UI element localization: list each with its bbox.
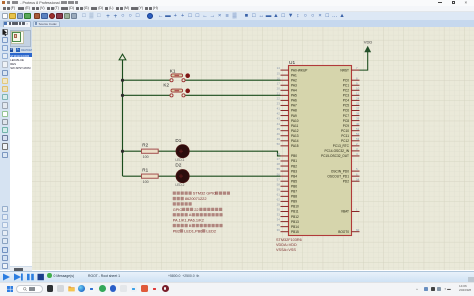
svg-text:36: 36 — [277, 228, 281, 232]
device list — [10, 53, 33, 266]
svg-text:21: 21 — [277, 91, 281, 95]
system tray — [416, 287, 418, 292]
power terminal (left rail, arrow up) — [119, 54, 126, 60]
svg-text:PA11: PA11 — [291, 124, 299, 128]
svg-text:PB3: PB3 — [291, 169, 297, 173]
svg-text:PB13: PB13 — [291, 220, 299, 224]
toolbar — [0, 12, 474, 20]
resistor R2 — [142, 143, 159, 159]
svg-text:D2: D2 — [175, 163, 181, 168]
svg-text:K2: K2 — [163, 82, 169, 87]
svg-text:44: 44 — [277, 122, 281, 126]
svg-text:VDD: VDD — [364, 39, 373, 44]
LED D2 — [175, 163, 189, 187]
svg-text:VDDA=VDD: VDDA=VDD — [276, 243, 297, 247]
svg-text:PA13: PA13 — [291, 134, 299, 138]
svg-text:PB8: PB8 — [291, 195, 297, 199]
wire: K2 to PA5 — [185, 94, 280, 96]
svg-text:PA8: PA8 — [291, 109, 297, 113]
svg-text:40: 40 — [356, 122, 360, 126]
svg-text:OSCOUT_PD1: OSCOUT_PD1 — [327, 174, 349, 178]
svg-text:LED-1: LED-1 — [175, 158, 184, 162]
svg-text:A: A — [189, 212, 192, 217]
svg-text:PC3: PC3 — [343, 94, 349, 98]
svg-text:15: 15 — [277, 71, 281, 75]
svg-text:PA4: PA4 — [291, 89, 297, 93]
overview panel — [10, 30, 31, 48]
svg-text:PC13_RTC: PC13_RTC — [333, 144, 350, 148]
svg-text:PC0: PC0 — [343, 78, 349, 82]
LED D1 — [175, 138, 189, 162]
object selector column — [10, 27, 33, 270]
wire: rail corner to R1 — [123, 175, 142, 177]
switch K2 — [163, 82, 190, 96]
svg-text:PA1: PA1 — [291, 73, 297, 77]
svg-text:28: 28 — [277, 162, 281, 166]
svg-text:27: 27 — [277, 157, 281, 161]
svg-text:24: 24 — [356, 97, 360, 101]
svg-text:29: 29 — [277, 203, 281, 207]
svg-text:PA.1/K1,PA6.1/K2: PA.1/K1,PA6.1/K2 — [173, 218, 204, 223]
VDD power terminal — [364, 39, 373, 51]
svg-text:PC4: PC4 — [343, 99, 349, 103]
svg-text:STM32 GPIO: STM32 GPIO — [193, 191, 216, 196]
svg-text:8620071222: 8620071222 — [185, 196, 207, 201]
wire: VDD to NRST — [360, 52, 368, 70]
svg-text:PB0: PB0 — [291, 154, 297, 158]
svg-text:54: 54 — [356, 177, 360, 181]
svg-text:PA3: PA3 — [291, 83, 297, 87]
svg-text:22: 22 — [277, 97, 281, 101]
wire: left vertical rail — [122, 60, 124, 176]
svg-text:100: 100 — [143, 155, 149, 159]
text block: experiment description — [173, 191, 230, 234]
svg-text:PC8: PC8 — [343, 119, 349, 123]
svg-text:OSCIN_PD0: OSCIN_PD0 — [331, 169, 349, 173]
svg-text:22: 22 — [194, 207, 198, 212]
svg-text:PC5: PC5 — [343, 104, 349, 108]
wire: R2 to D1 — [158, 150, 176, 152]
svg-text:VBAT: VBAT — [341, 210, 349, 214]
svg-text:23: 23 — [277, 102, 281, 106]
svg-text:STM32F103R6: STM32F103R6 — [276, 238, 302, 242]
taskbar — [0, 282, 474, 296]
svg-text:PB6: PB6 — [291, 184, 297, 188]
svg-text:53: 53 — [356, 137, 360, 141]
menu bar — [0, 6, 474, 12]
svg-text:49: 49 — [277, 137, 281, 141]
status bar — [0, 271, 474, 282]
svg-text:NRST: NRST — [340, 68, 349, 72]
svg-text:VSSA=VSS: VSSA=VSS — [276, 248, 296, 252]
svg-text:25: 25 — [356, 102, 360, 106]
svg-text:PC2: PC2 — [343, 89, 349, 93]
svg-text:PB4: PB4 — [291, 174, 297, 178]
svg-text:PB5: PB5 — [291, 179, 297, 183]
P L buttons — [10, 48, 14, 52]
schematic canvas — [32, 27, 474, 270]
svg-text:R2: R2 — [142, 143, 148, 148]
svg-text:PA2: PA2 — [291, 78, 297, 82]
svg-text:PA9: PA9 — [291, 114, 297, 118]
svg-text:46: 46 — [277, 132, 281, 136]
svg-text:30: 30 — [277, 208, 281, 212]
svg-text:K1: K1 — [170, 69, 176, 74]
svg-text:PC7: PC7 — [343, 114, 349, 118]
wire: D2 to PB4 — [189, 175, 280, 177]
wire: D1 to PB0 elbow — [189, 151, 280, 156]
title bar — [0, 0, 474, 6]
svg-text:61: 61 — [277, 192, 281, 196]
svg-text:PD2: PD2 — [343, 179, 349, 183]
svg-text:BOOT0: BOOT0 — [338, 230, 349, 234]
svg-text:17: 17 — [277, 81, 281, 85]
svg-text:PB7: PB7 — [291, 190, 297, 194]
svg-text:PB15: PB15 — [291, 230, 299, 234]
svg-text:PB11: PB11 — [291, 210, 299, 214]
wire: rail to K2 — [123, 94, 170, 96]
svg-text:35: 35 — [277, 223, 281, 227]
wire: rail to K1 — [123, 79, 170, 81]
svg-text:R1: R1 — [142, 168, 148, 173]
svg-text:14: 14 — [277, 66, 281, 70]
svg-text:PA7: PA7 — [291, 104, 297, 108]
svg-text:57: 57 — [277, 177, 281, 181]
svg-text:B: B — [189, 223, 192, 228]
schematic paper grid — [32, 27, 474, 270]
svg-text:PB12: PB12 — [291, 215, 299, 219]
svg-text:58: 58 — [277, 182, 281, 186]
tab bar — [0, 20, 474, 27]
left mode toolbar strip — [0, 27, 10, 270]
junction — [121, 94, 124, 97]
wire: K1 to PA2 — [185, 79, 280, 81]
svg-text:PA0-WKUP: PA0-WKUP — [291, 68, 307, 72]
svg-text:LED1,PB6: LED1,PB6 — [184, 228, 202, 233]
svg-text:PB2: PB2 — [173, 228, 180, 233]
svg-text:PC10: PC10 — [341, 129, 349, 133]
svg-text:62: 62 — [277, 198, 281, 202]
list scrollbar — [10, 267, 33, 271]
svg-text:PA12: PA12 — [291, 129, 299, 133]
svg-text:PC15-OSC32_OUT: PC15-OSC32_OUT — [321, 154, 349, 158]
wire: R1 to D2 — [158, 175, 176, 177]
svg-text:60: 60 — [356, 228, 360, 232]
svg-text:PC9: PC9 — [343, 124, 349, 128]
svg-text:37: 37 — [356, 107, 360, 111]
svg-text:D1: D1 — [175, 138, 181, 143]
svg-text:PB14: PB14 — [291, 225, 299, 229]
svg-text:11: 11 — [356, 91, 359, 95]
svg-text:55: 55 — [277, 167, 281, 171]
svg-text:100: 100 — [143, 180, 149, 184]
svg-text:PC11: PC11 — [341, 134, 349, 138]
svg-text:41: 41 — [277, 107, 281, 111]
svg-text:16: 16 — [277, 76, 281, 80]
chip value labels — [276, 238, 302, 252]
svg-text:PB2: PB2 — [291, 164, 297, 168]
svg-text:10: 10 — [356, 86, 360, 90]
svg-text:PB1: PB1 — [291, 159, 297, 163]
svg-text:PC6: PC6 — [343, 109, 349, 113]
svg-text:38: 38 — [356, 112, 360, 116]
svg-text:56: 56 — [277, 172, 281, 176]
svg-text:PA6: PA6 — [291, 99, 297, 103]
svg-text:33: 33 — [277, 213, 281, 217]
svg-text:PB9: PB9 — [291, 200, 297, 204]
svg-text:PA14: PA14 — [291, 139, 299, 143]
svg-text:PC12: PC12 — [341, 139, 349, 143]
right pins NRST PCx PDx VBAT BOOT0 — [352, 70, 360, 232]
svg-text:43: 43 — [277, 117, 281, 121]
svg-text:PC14-OSC32_IN: PC14-OSC32_IN — [325, 149, 350, 153]
junction — [121, 79, 124, 82]
svg-text:52: 52 — [356, 132, 360, 136]
junction — [121, 150, 124, 153]
svg-text:PA5: PA5 — [291, 94, 297, 98]
svg-text:34: 34 — [277, 218, 281, 222]
svg-text:PA15: PA15 — [291, 144, 299, 148]
svg-text:39: 39 — [356, 117, 360, 121]
svg-text:51: 51 — [356, 127, 360, 131]
resistor R1 — [142, 168, 159, 184]
switch K1 — [170, 69, 190, 82]
svg-text:LED2: LED2 — [206, 228, 216, 233]
svg-text:26: 26 — [277, 152, 281, 156]
svg-text:59: 59 — [277, 187, 281, 191]
svg-text:GPIO: GPIO — [173, 207, 183, 212]
U1 STM32F103R6 chip body — [289, 60, 352, 236]
wire: rail to R2 — [123, 150, 142, 152]
svg-text:PA10: PA10 — [291, 119, 299, 123]
svg-text:20: 20 — [277, 86, 281, 90]
svg-text:LED-2: LED-2 — [175, 183, 184, 187]
left pins PA0..PA15 PB0..PB15 — [281, 70, 289, 232]
svg-text:50: 50 — [277, 142, 281, 146]
svg-text:PB10: PB10 — [291, 205, 299, 209]
svg-text:45: 45 — [277, 127, 281, 131]
svg-text:42: 42 — [277, 112, 281, 116]
svg-text:PC1: PC1 — [343, 83, 349, 87]
